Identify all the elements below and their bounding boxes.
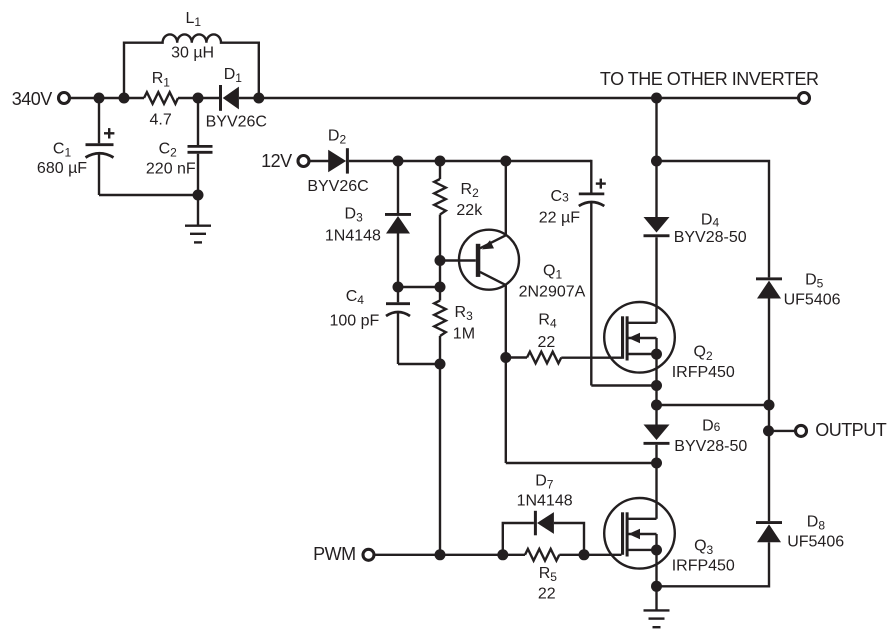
diode D6 BYV28-50 bbox=[644, 405, 748, 463]
junction L1 left bbox=[119, 93, 130, 104]
junction 12V/Q1 emitter bbox=[500, 156, 511, 167]
transistor Q1 2N2907A bbox=[440, 161, 586, 463]
node TO THE OTHER INVERTER bbox=[600, 69, 819, 104]
wire top rail down to D4 bbox=[655, 98, 657, 161]
junction OUTPUT tap bbox=[763, 425, 774, 436]
svg-text:BYV26C: BYV26C bbox=[206, 114, 267, 131]
svg-text:22k: 22k bbox=[456, 202, 483, 219]
svg-text:100 pF: 100 pF bbox=[329, 313, 379, 330]
svg-text:D6: D6 bbox=[702, 417, 721, 434]
junction D4 / D5 branch bbox=[651, 156, 662, 167]
svg-text:22: 22 bbox=[538, 334, 556, 351]
mosfet Q2 IRFP450 bbox=[604, 302, 735, 386]
svg-text:OUTPUT: OUTPUT bbox=[815, 420, 887, 440]
resistor R1 bbox=[144, 70, 178, 128]
svg-text:2N2907A: 2N2907A bbox=[519, 284, 586, 301]
wire R4 to Q2 gate bbox=[561, 357, 621, 359]
diode D8 UF5406 bbox=[657, 514, 845, 587]
ground (power stage) bbox=[644, 610, 670, 627]
wire Q1 collector to D6 node bbox=[506, 462, 657, 464]
svg-text:680 µF: 680 µF bbox=[37, 160, 87, 177]
capacitor C4 100pF bbox=[329, 287, 410, 364]
junction 340V/C1 bbox=[94, 93, 105, 104]
resistor R5 22 bbox=[525, 549, 622, 603]
svg-text:UF5406: UF5406 bbox=[787, 534, 844, 551]
diode D2 BYV26C bbox=[307, 128, 368, 195]
wire D3 anode to base node bbox=[398, 286, 440, 288]
wire R1 to D1 bbox=[178, 97, 220, 99]
svg-text:1N4148: 1N4148 bbox=[517, 492, 573, 509]
wire to output column bbox=[657, 404, 770, 406]
svg-text:C3: C3 bbox=[551, 188, 570, 205]
svg-text:IRFP450: IRFP450 bbox=[672, 364, 735, 381]
ground (input filter) bbox=[185, 226, 211, 243]
diode D5 UF5406 bbox=[756, 272, 841, 406]
junction 12V/R2 bbox=[435, 156, 446, 167]
wire C4 bottom to R3 bottom bbox=[398, 363, 440, 365]
capacitor C2 220nF bbox=[146, 98, 213, 225]
wire D1 to other-inverter terminal bbox=[239, 97, 799, 99]
svg-text:1N4148: 1N4148 bbox=[325, 228, 381, 245]
diode D1 BYV26C bbox=[206, 66, 267, 131]
wire 12V rail D2 to C3 bbox=[349, 160, 591, 162]
terminal 340V bbox=[12, 89, 70, 109]
svg-text:1M: 1M bbox=[453, 326, 475, 343]
resistor R2 22k bbox=[434, 161, 483, 261]
wire to ground bbox=[655, 586, 657, 610]
wire 340V rail to R1 bbox=[71, 97, 144, 99]
svg-text:220 nF: 220 nF bbox=[146, 161, 196, 178]
junction output column top bbox=[764, 400, 775, 411]
svg-text:PWM: PWM bbox=[313, 544, 356, 564]
wire R3/C4 node down to PWM line bbox=[439, 364, 441, 555]
wire C1 bottom to C2 bottom bbox=[99, 194, 198, 196]
wire source node down bbox=[655, 386, 657, 406]
junction C1/C2/ground bbox=[193, 190, 204, 201]
wire PWM to R5 bbox=[375, 554, 525, 556]
wire branch to D5 bbox=[657, 161, 770, 277]
resistor R3 1M bbox=[434, 301, 475, 365]
terminal PWM bbox=[313, 544, 374, 564]
junction Q3 source / ground bbox=[651, 581, 662, 592]
svg-text:BYV28-50: BYV28-50 bbox=[674, 438, 747, 455]
junction D7 left bbox=[497, 549, 508, 560]
junction base node bbox=[435, 282, 446, 293]
wire output column to D8 bbox=[768, 405, 770, 521]
svg-text:TO THE OTHER INVERTER: TO THE OTHER INVERTER bbox=[600, 69, 819, 89]
wire base node down bbox=[439, 261, 441, 301]
junction 12V/D3 bbox=[393, 156, 404, 167]
svg-text:UF5406: UF5406 bbox=[784, 292, 841, 309]
svg-text:22 µF: 22 µF bbox=[539, 210, 580, 227]
svg-text:30 µH: 30 µH bbox=[171, 45, 214, 62]
junction R1/C2/D1 bbox=[193, 93, 204, 104]
resistor R4 22 bbox=[506, 311, 562, 363]
wire 12V to D2 bbox=[310, 160, 329, 162]
junction D6 / Q1 collector / Q3 drain bbox=[651, 458, 662, 469]
wire C3 bottom to Q2 source bbox=[591, 384, 656, 386]
svg-text:IRFP450: IRFP450 bbox=[672, 558, 735, 575]
junction D6 / output branch bbox=[651, 400, 662, 411]
junction Q2 source / C3 bbox=[651, 380, 662, 391]
diode D3 1N4148 bbox=[325, 161, 411, 287]
mosfet Q3 IRFP450 bbox=[604, 463, 735, 586]
svg-text:340V: 340V bbox=[12, 89, 53, 109]
capacitor C3 22uF bbox=[539, 160, 606, 386]
junction R3/C4 bbox=[435, 359, 446, 370]
diode D4 BYV28-50 bbox=[644, 161, 747, 323]
inductor L1 30uH bbox=[124, 10, 259, 98]
junction L1 right / D1 anode bbox=[253, 93, 264, 104]
junction D7 right bbox=[579, 549, 590, 560]
wire to OUTPUT terminal bbox=[769, 430, 796, 432]
junction D3/C4 bbox=[393, 282, 404, 293]
capacitor C1 680uF bbox=[37, 98, 114, 195]
terminal OUTPUT bbox=[796, 420, 887, 440]
junction R4 / Q1 collector bbox=[500, 352, 511, 363]
svg-text:BYV28-50: BYV28-50 bbox=[674, 229, 747, 246]
junction top rail / Q2 drain branch bbox=[651, 93, 662, 104]
terminal 12V bbox=[261, 151, 309, 171]
junction PWM / R2 column bbox=[435, 549, 446, 560]
svg-text:4.7: 4.7 bbox=[149, 111, 171, 128]
junction Q1 base / R2 bbox=[435, 255, 446, 266]
svg-text:BYV26C: BYV26C bbox=[307, 178, 368, 195]
svg-text:12V: 12V bbox=[261, 151, 292, 171]
svg-text:22: 22 bbox=[538, 586, 556, 603]
diode D7 1N4148 bbox=[503, 472, 584, 555]
